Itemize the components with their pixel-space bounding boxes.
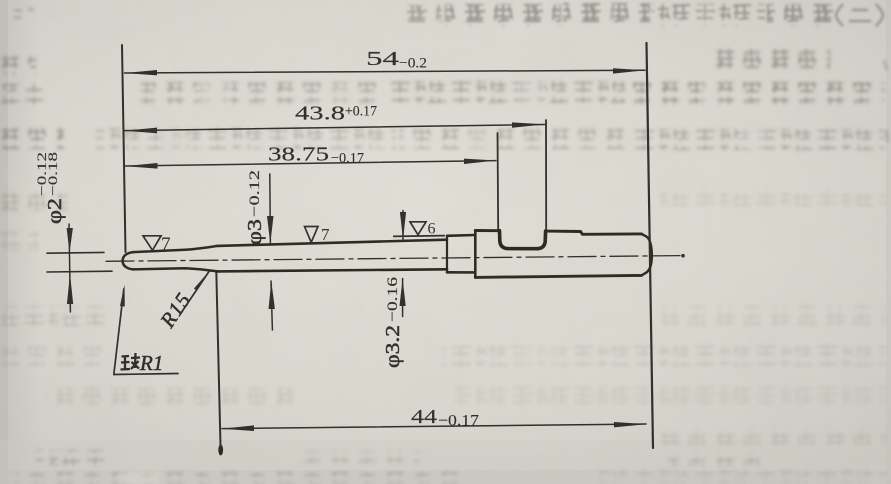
- R15 leader arrow: [194, 271, 210, 291]
- phi3 dimension line: [269, 174, 272, 244]
- right end cap: [642, 234, 652, 276]
- showthrough row 4: [0, 128, 64, 149]
- surface finish mark V6 with bar: [393, 235, 445, 238]
- head top left of notch: [475, 229, 498, 232]
- 38.75 arrows: [125, 163, 158, 169]
- phi3.2 dimension line: [402, 211, 404, 240]
- extension line for 44 at x=218: [216, 271, 220, 446]
- surface finish mark V7 #1: [143, 236, 161, 251]
- 43.8 arrows: [124, 128, 157, 134]
- notch U: [500, 231, 546, 249]
- dimension line 54-0.2: [125, 70, 646, 73]
- leader R15: [180, 272, 209, 315]
- blob at bottom of 44 ext line: [218, 445, 223, 456]
- showthrough text row 1 (dark, mirrored): [406, 3, 883, 26]
- surface finish mark V7 #2: [305, 227, 319, 243]
- extension line right (x=646): [647, 43, 654, 448]
- 54 arrows: [124, 70, 157, 75]
- phi2 -0.12/-0.18 rotated label: [34, 152, 66, 224]
- phi3 arrows: [267, 216, 274, 244]
- R15 rotated label: [155, 288, 196, 333]
- phi3.2-0.16 rotated label: [382, 276, 404, 368]
- ball end: [123, 252, 133, 269]
- extension line notch right: [545, 120, 547, 229]
- centerline dash-dot: [106, 256, 683, 262]
- phi2 bottom edge + taper: [133, 268, 218, 271]
- showthrough row 3: [141, 82, 381, 104]
- head top right of notch + small step: [546, 231, 642, 234]
- dimension line 44-0.17: [222, 424, 646, 429]
- phi3 section top edge: [218, 240, 448, 246]
- extension line left (54/43.8/38.75 datum): [122, 45, 126, 252]
- extension line notch left: [497, 133, 500, 229]
- arrowheads: [67, 68, 647, 431]
- phi2 dimension line + extension lines: [47, 251, 104, 254]
- faint lower rows: [0, 192, 68, 211]
- ball R1 label (qiu R1): [121, 353, 141, 370]
- underline of ball R1 text: [114, 374, 178, 375]
- phi3 section bottom edge: [218, 269, 448, 271]
- short section top/bottom: [447, 234, 475, 237]
- showthrough row 2: [706, 47, 830, 68]
- 44 arrows: [222, 425, 255, 431]
- dimension line 38.75-0.17: [125, 161, 496, 166]
- phi2 top edge + taper: [133, 246, 218, 252]
- phi3-0.12 rotated label: [244, 170, 266, 245]
- blob at right end of centerline: [681, 254, 685, 258]
- phi3.2 arrows: [400, 212, 406, 240]
- leader ball R1: [114, 289, 124, 375]
- dimension text 44-0.17: [411, 406, 479, 430]
- dimension line 43.8+0.17: [125, 125, 545, 131]
- head left edge: [474, 231, 477, 278]
- head bottom: [475, 275, 641, 277]
- dimension text 38.75-0.17: [268, 143, 364, 166]
- phi2 arrows (down, up): [67, 228, 73, 253]
- ball R1 leader arrow: [120, 285, 125, 307]
- step at x=447: [446, 236, 448, 272]
- dimension text 54-0.2: [366, 48, 427, 72]
- dimension text 43.8+0.17: [295, 103, 377, 125]
